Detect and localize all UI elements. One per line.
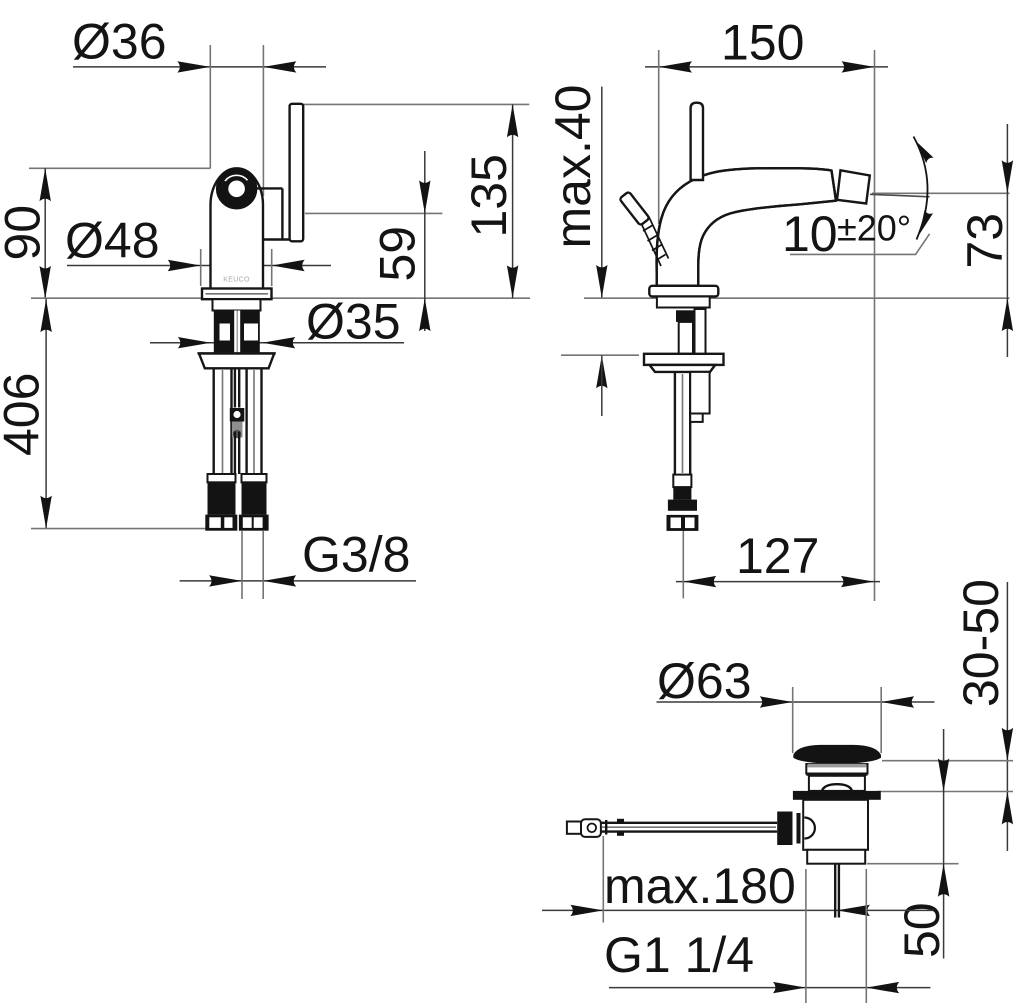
pull rod center <box>235 368 239 407</box>
escutcheon lower side view <box>657 297 710 308</box>
dimension G3/8 extension line left <box>241 531 243 599</box>
dimension 127 extension line left <box>682 530 684 598</box>
aerator housing <box>837 170 870 203</box>
drain neck shading <box>808 764 867 768</box>
supply hose left <box>214 368 232 474</box>
aerator tilt line <box>870 194 930 197</box>
svg-text:73: 73 <box>957 213 1013 269</box>
dimension Ø36 extension line left <box>209 45 211 168</box>
spout outer outline <box>657 168 832 286</box>
hose crimp side view <box>673 487 691 500</box>
shank tube upper <box>679 322 693 354</box>
shank window left <box>220 324 231 341</box>
dimension max.180 arrow right <box>837 905 870 916</box>
svg-text:Ø36: Ø36 <box>72 14 167 70</box>
dimension 406 arrow up <box>40 299 51 332</box>
hose ferrule left <box>208 474 236 482</box>
dimension Ø63 arrow right <box>881 696 914 707</box>
dimension G1 1/4 extension line right <box>865 869 867 1003</box>
dimension 59 arrow down <box>419 180 430 213</box>
lever step line <box>263 238 303 240</box>
faucet body front view <box>211 168 264 289</box>
dimension Ø63 arrow left <box>760 696 793 707</box>
dimension 406 line <box>45 299 47 529</box>
drain rod knob hole <box>588 824 597 833</box>
dimension max.180 line <box>542 909 934 911</box>
drain body <box>803 800 868 850</box>
hose ferrule right <box>242 474 267 482</box>
lever top reference line <box>304 103 530 105</box>
shank tube long <box>675 372 690 475</box>
svg-text:G1 1/4: G1 1/4 <box>604 927 754 983</box>
spout aerator joint line <box>832 171 837 201</box>
dimension 406 arrow down <box>40 496 51 529</box>
dimension 30-50 arrow down <box>1002 728 1013 761</box>
dimension Ø48 arrow left <box>168 260 201 271</box>
svg-text:150: 150 <box>721 15 804 71</box>
spout outlet reference line <box>305 212 442 214</box>
dimension 150/127 extension line right long <box>874 50 876 601</box>
G3/8 nut right <box>239 515 269 531</box>
dimension 150 extension line left <box>658 50 660 224</box>
dimension max.40 arrow down <box>596 265 607 298</box>
dimension 30-50 arrow up <box>1002 792 1013 825</box>
pull rod lower <box>235 432 239 475</box>
dimension max.180 extension line left <box>602 836 604 923</box>
drain cap dome <box>793 745 881 764</box>
dimension G1 1/4 arrow left <box>773 982 806 993</box>
drain neck <box>806 764 867 774</box>
svg-text:127: 127 <box>736 528 819 584</box>
dimension Ø48 arrow right <box>272 260 305 271</box>
svg-text:max.180: max.180 <box>604 858 796 914</box>
pull rod coupler lower <box>232 422 243 438</box>
dimension 50 line <box>943 729 945 959</box>
drain tail pull rod <box>835 864 839 918</box>
drain seal bump <box>822 784 852 791</box>
joystick ring highlight <box>225 175 248 181</box>
dimension Ø48 extension line left <box>200 249 202 286</box>
dimension max.40 line upper <box>601 87 603 298</box>
dimension 150 arrow left <box>659 61 692 72</box>
dimension 150 line <box>645 66 888 68</box>
lever handle side view <box>691 103 703 180</box>
cap underside reference line <box>882 760 1013 762</box>
side stud <box>695 309 706 355</box>
horseshoe washer <box>199 353 274 368</box>
dimension 59 arrow up <box>419 298 430 331</box>
dimension 73 arrow down <box>1002 160 1013 193</box>
counter underside reference line <box>561 354 639 356</box>
dimension 73 arrow up <box>1002 298 1013 331</box>
drain rod end stub <box>567 822 581 834</box>
dimension 90 line <box>44 168 46 299</box>
nut facet windows <box>209 517 262 528</box>
hose connection block side view <box>690 372 709 414</box>
dimension G1 1/4 line <box>609 987 931 989</box>
svg-text:90: 90 <box>0 205 51 261</box>
hose crimp right <box>242 482 267 514</box>
escutcheon flange groove <box>206 293 269 295</box>
aerator axis reference line <box>872 192 1010 194</box>
escutcheon flange side view <box>649 286 718 297</box>
dimension 90 arrow down <box>40 266 51 299</box>
flange top reference line <box>877 791 1013 793</box>
dimension max.40 arrow up <box>596 355 607 388</box>
dimension 150 arrow right <box>842 61 875 72</box>
deck mounting surface line front view <box>31 297 530 299</box>
spout inner outline <box>698 201 836 286</box>
joystick shaft hatched <box>642 217 669 266</box>
hose crimp left <box>208 482 236 514</box>
dimension Ø63 line <box>657 701 935 703</box>
lever connector line <box>257 187 283 189</box>
shank rod channel <box>234 311 240 354</box>
escutcheon flange front view <box>202 289 272 300</box>
dimension 135 line <box>512 104 514 298</box>
drain ball housing ring <box>797 813 801 844</box>
dimension 135 arrow up <box>507 104 518 137</box>
drain body lower <box>807 850 865 864</box>
shank window right <box>244 324 258 341</box>
svg-text:±20°: ±20° <box>837 208 911 249</box>
dimension max.40 line lower <box>601 355 603 416</box>
dimension 406 reference line bottom <box>31 528 206 530</box>
dimension 59 line <box>424 151 426 331</box>
spout body side view <box>657 168 836 286</box>
dimension Ø36 line <box>73 66 326 68</box>
svg-text:59: 59 <box>370 226 426 282</box>
horseshoe washer side view <box>644 354 724 365</box>
dimension 127 line <box>676 581 880 583</box>
dimension 127 arrow left <box>683 576 716 587</box>
supply hose right <box>247 368 262 474</box>
drain mid joint <box>806 773 867 775</box>
svg-text:406: 406 <box>0 373 50 456</box>
joystick ring inner hole <box>227 179 246 198</box>
washer top edge <box>198 352 276 354</box>
dimension max.180 arrow left <box>570 905 603 916</box>
svg-text:KEUCO: KEUCO <box>223 277 250 284</box>
dimension G3/8 arrow left <box>209 575 242 586</box>
drain rod clevis marks <box>605 819 624 836</box>
angle leader underline <box>790 234 930 255</box>
lever handle front view <box>290 104 304 242</box>
drain rod knob <box>581 819 601 837</box>
washer dome side view <box>650 365 716 372</box>
dimension Ø63 extension line left <box>792 687 794 753</box>
pull rod coupler <box>230 408 245 422</box>
dimension Ø36 arrow left <box>177 61 210 72</box>
lever attachment edge <box>281 188 283 239</box>
deck mounting surface line side view <box>584 297 1010 299</box>
dimension Ø63 extension line right <box>880 687 882 753</box>
dimension G3/8 arrow right <box>263 575 296 586</box>
dimension Ø35 arrow right <box>262 337 295 348</box>
valve block below deck <box>676 310 695 322</box>
swivel arc arrow top <box>912 138 934 163</box>
svg-text:max.40: max.40 <box>545 85 601 249</box>
dimension G3/8 extension line right <box>262 531 264 599</box>
joystick knob <box>619 191 649 225</box>
G3/8 nut left <box>205 515 237 531</box>
dimension 90 arrow up <box>40 168 51 201</box>
dimension Ø48 line <box>67 265 331 267</box>
dimension 50 arrow up <box>938 864 949 897</box>
G3/8 nut side view <box>667 515 699 531</box>
hose connection step <box>690 414 703 422</box>
dimension 30-50 line <box>1006 582 1008 851</box>
swivel arc <box>914 137 928 240</box>
dimension 127 arrow right <box>841 576 874 587</box>
svg-text:Ø35: Ø35 <box>306 294 401 350</box>
svg-text:Ø48: Ø48 <box>65 213 160 269</box>
dimension Ø36 arrow right <box>263 61 296 72</box>
dimension 135 arrow down <box>507 265 518 298</box>
drain lever rod <box>601 823 777 832</box>
dimension G1 1/4 arrow right <box>866 982 899 993</box>
svg-text:30-50: 30-50 <box>953 579 1009 707</box>
swivel arc arrow bottom <box>916 210 934 236</box>
drain flange <box>793 791 881 800</box>
svg-text:135: 135 <box>461 154 517 237</box>
dimension 50 arrow down <box>938 759 949 792</box>
dimension Ø36 extension line right <box>262 45 264 196</box>
threaded shank block <box>214 311 260 354</box>
dimension G3/8 line <box>180 580 416 582</box>
dimension Ø48 extension line right <box>271 249 273 286</box>
hose ferrule side view <box>673 475 691 488</box>
drain ball housing <box>777 812 792 846</box>
hose crimp wide side view <box>668 500 697 511</box>
drain ball arc <box>804 818 815 839</box>
nut facet windows side view <box>671 518 695 529</box>
svg-text:Ø63: Ø63 <box>657 653 752 709</box>
dimension Ø35 line <box>150 342 404 344</box>
joystick ring collar <box>221 174 251 204</box>
shank collar <box>213 299 261 310</box>
body bottom reference line <box>867 863 959 865</box>
drain seal section <box>809 776 865 791</box>
dimension G1 1/4 extension line left <box>805 869 807 1003</box>
dimension 90 reference line top <box>29 167 210 169</box>
dimension Ø35 arrow left <box>178 337 211 348</box>
svg-text:G3/8: G3/8 <box>302 527 410 583</box>
dimension 73 line <box>1006 124 1008 357</box>
